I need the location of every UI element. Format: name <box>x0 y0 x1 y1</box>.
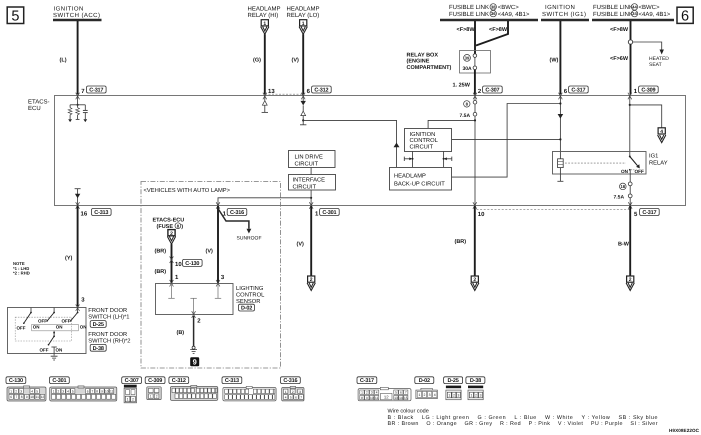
boundary crossing pin16 <box>76 202 80 209</box>
svg-text:OFF: OFF <box>38 319 47 324</box>
svg-text:SWITCH (ACC): SWITCH (ACC) <box>53 12 100 19</box>
svg-text:C-317: C-317 <box>89 88 103 94</box>
svg-text:<F>8W: <F>8W <box>610 27 629 33</box>
svg-text:7: 7 <box>92 389 94 393</box>
svg-text:(W): (W) <box>550 58 559 64</box>
svg-text:(B): (B) <box>177 330 185 336</box>
svg-text:7: 7 <box>16 395 18 399</box>
svg-text:4: 4 <box>434 393 436 397</box>
svg-text:SUNROOF: SUNROOF <box>237 235 262 241</box>
boundary crossing pin13 <box>263 93 267 100</box>
svg-text:(L): (L) <box>60 58 67 64</box>
boundary crossing pin6 C-312 <box>301 93 305 100</box>
headlamp relay (HI) label <box>248 6 281 20</box>
svg-text:ON: ON <box>621 169 629 174</box>
svg-text:2: 2 <box>132 397 134 401</box>
IG1 wire internal <box>558 96 564 159</box>
svg-text:SEAT: SEAT <box>649 62 662 68</box>
ignition control to backup terminals <box>404 151 413 167</box>
relay switch <box>621 156 644 174</box>
fusible link right bus bar <box>592 19 674 21</box>
svg-text:5: 5 <box>72 389 74 393</box>
lighting control sensor box <box>156 284 234 315</box>
svg-text:FUSIBLE LINK: FUSIBLE LINK <box>593 11 633 18</box>
door switch 3 <box>62 308 87 330</box>
ETACS-ECU fuse 8 source label <box>153 217 185 230</box>
svg-text:3: 3 <box>62 389 64 393</box>
door switch linkage dashed box <box>15 317 71 341</box>
svg-text:2: 2 <box>170 231 173 237</box>
svg-text:<F>8W: <F>8W <box>489 27 508 33</box>
ETACS-ECU box <box>55 96 686 206</box>
svg-text:OFF: OFF <box>635 169 645 174</box>
svg-text:ETACS-: ETACS- <box>28 99 50 106</box>
svg-text:RELAY BOX: RELAY BOX <box>407 53 439 59</box>
svg-text:C-316: C-316 <box>283 378 297 384</box>
svg-text:HEADLAMP: HEADLAMP <box>287 6 320 13</box>
svg-text:1: 1 <box>418 393 420 397</box>
svg-text:2: 2 <box>58 389 60 393</box>
svg-text:<4A9, 4B1>: <4A9, 4B1> <box>639 11 671 18</box>
svg-text:15: 15 <box>404 396 408 400</box>
svg-text:1: 1 <box>470 394 472 398</box>
C-309 wire internal with branch to off-page 4 <box>629 96 662 157</box>
svg-text:IGNITION: IGNITION <box>410 131 436 138</box>
svg-text:C-313: C-313 <box>94 210 108 216</box>
svg-text:5: 5 <box>395 391 397 395</box>
IG1 relay box <box>553 152 647 175</box>
svg-text:(BR): (BR) <box>455 239 467 245</box>
svg-text:1: 1 <box>302 21 305 27</box>
door switch ground <box>51 353 58 360</box>
boundary crossing C-316 <box>216 202 220 209</box>
wire (V) C-316 to sensor pin 3 <box>217 206 219 283</box>
svg-text:1: 1 <box>263 21 266 27</box>
svg-text:1: 1 <box>285 390 287 394</box>
svg-text:34: 34 <box>632 11 637 16</box>
link between LIN and interface <box>310 168 312 175</box>
interface circuit box <box>289 175 336 191</box>
svg-text:CIRCUIT: CIRCUIT <box>293 184 317 191</box>
svg-text:2: 2 <box>15 389 17 393</box>
svg-text:<4A9, 4B1>: <4A9, 4B1> <box>498 11 530 18</box>
placeholder groups <box>7 4 693 95</box>
svg-text:ON: ON <box>33 325 40 330</box>
svg-text:3: 3 <box>20 389 22 393</box>
svg-text:30A: 30A <box>463 66 473 72</box>
svg-text:(V): (V) <box>297 241 305 247</box>
pin16 internal output symbol <box>75 189 81 206</box>
svg-text:36: 36 <box>491 11 496 16</box>
fuse 8 7.5A on pin2 wire <box>460 96 477 119</box>
connector D-38 <box>466 377 485 400</box>
svg-text:1: 1 <box>361 391 363 395</box>
svg-text:3: 3 <box>429 393 431 397</box>
svg-text:4: 4 <box>376 391 378 395</box>
svg-text:1. 25W: 1. 25W <box>453 83 471 89</box>
relay coil <box>557 159 563 182</box>
sunroof branch <box>219 210 262 242</box>
wire (BR) to sensor pin 1 <box>171 244 173 283</box>
boundary crossing pin2 C-307 <box>473 93 477 100</box>
svg-text:H9X08E22OC: H9X08E22OC <box>669 428 700 433</box>
branch to heated seat <box>633 42 670 68</box>
svg-text:2: 2 <box>424 393 426 397</box>
svg-text:10: 10 <box>175 261 182 268</box>
note text <box>13 261 30 275</box>
svg-text:(G): (G) <box>253 58 261 64</box>
svg-text:C-317: C-317 <box>571 88 585 94</box>
svg-text:D-25: D-25 <box>93 322 104 328</box>
svg-text:ON: ON <box>80 325 87 330</box>
svg-text:<BWC>: <BWC> <box>498 4 520 11</box>
svg-text:(ENGINE: (ENGINE <box>407 59 430 65</box>
svg-text:C-301: C-301 <box>322 210 336 216</box>
svg-text:C-130: C-130 <box>9 378 23 384</box>
svg-text:1: 1 <box>448 394 450 398</box>
svg-text:6: 6 <box>400 391 402 395</box>
svg-text:5: 5 <box>36 389 38 393</box>
relay box outline <box>460 51 491 74</box>
svg-text:ETACS-ECU: ETACS-ECU <box>153 217 185 223</box>
svg-text:IGNITION: IGNITION <box>54 6 84 13</box>
svg-text:ON: ON <box>56 325 63 330</box>
svg-text:<F>8W: <F>8W <box>457 27 476 33</box>
backup box right connection <box>452 104 561 178</box>
door switch 2 <box>38 308 63 330</box>
svg-text:8: 8 <box>21 395 23 399</box>
fusible link 44/34 labels <box>593 4 671 18</box>
svg-text:6: 6 <box>10 395 12 399</box>
svg-text:BR : Brown O : Orange GR: BR : Brown O : Orange GR : Grey R : Red … <box>388 421 658 427</box>
svg-text:(Y): (Y) <box>65 256 73 262</box>
svg-text:7: 7 <box>300 395 302 399</box>
off-page connector 2 (pin5 wire) <box>626 276 634 291</box>
pin6 LO internal input symbol <box>300 96 306 125</box>
svg-text:12: 12 <box>41 395 45 399</box>
front door switch box <box>8 308 87 354</box>
svg-text:C-307: C-307 <box>125 378 139 384</box>
svg-text:C-312: C-312 <box>314 88 328 94</box>
svg-text:11: 11 <box>375 396 379 400</box>
svg-text:OFF: OFF <box>40 348 49 353</box>
svg-text:ECU: ECU <box>28 105 41 112</box>
off-page connector 1 (headlamp relay LO) <box>299 20 307 35</box>
svg-text:LIN DRIVE: LIN DRIVE <box>295 155 323 161</box>
svg-text:4: 4 <box>31 389 33 393</box>
page ref box 5 <box>7 7 24 24</box>
svg-text:B-W: B-W <box>618 241 630 247</box>
svg-text:CONTROL: CONTROL <box>236 292 265 299</box>
svg-text:11: 11 <box>36 395 40 399</box>
svg-text:C-312: C-312 <box>172 378 186 384</box>
svg-text:C-317: C-317 <box>642 210 656 216</box>
svg-text:CIRCUIT: CIRCUIT <box>295 161 319 168</box>
wire <F>6W to pin 1 <box>630 44 632 94</box>
svg-text:FUSIBLE LINK: FUSIBLE LINK <box>593 4 633 11</box>
svg-text:10: 10 <box>370 396 374 400</box>
svg-text:14: 14 <box>399 396 403 400</box>
wire colour code block <box>388 409 658 427</box>
svg-text:3: 3 <box>480 394 482 398</box>
sensor pin 2 ground wire (B) <box>192 311 196 318</box>
off-page connector 4 <box>658 128 666 143</box>
svg-text:C-317: C-317 <box>360 378 374 384</box>
wire (V) C-301 to off-page 2 <box>310 206 312 276</box>
front door switch labels <box>88 307 130 352</box>
svg-text:4: 4 <box>67 389 69 393</box>
wire (L) from ACC to pin 7 <box>77 21 79 95</box>
off-page connector 2 (pin10 wire) <box>471 276 479 291</box>
boundary crossing pin5 <box>628 202 632 209</box>
svg-text:FUSIBLE LINK: FUSIBLE LINK <box>449 4 489 11</box>
boundary crossing C-301 <box>309 202 313 209</box>
ignition switch (IG1) bus bar <box>541 19 589 21</box>
svg-text:FUSIBLE LINK: FUSIBLE LINK <box>449 11 489 18</box>
svg-text:2: 2 <box>629 277 632 283</box>
svg-text:IG1: IG1 <box>649 153 658 160</box>
connector C-130 <box>6 377 46 401</box>
svg-text:Wire colour code: Wire colour code <box>388 409 429 415</box>
ETACS-ECU label <box>28 99 50 113</box>
svg-text:(BR): (BR) <box>155 269 167 275</box>
svg-text:10: 10 <box>30 395 34 399</box>
svg-text:C-130: C-130 <box>185 261 199 267</box>
svg-text:7.5A: 7.5A <box>460 113 471 119</box>
ground ref 9 black box <box>190 357 199 366</box>
svg-text:1: 1 <box>127 397 129 401</box>
svg-text:SWITCH (IG1): SWITCH (IG1) <box>542 11 586 18</box>
svg-text:RELAY (HI): RELAY (HI) <box>248 12 279 19</box>
fuse 18 7.5A below relay <box>614 170 633 206</box>
svg-text:HEADLAMP: HEADLAMP <box>248 6 281 13</box>
svg-text:ON: ON <box>56 348 63 353</box>
wire (BR) pin10 to off-page 2 <box>474 206 476 276</box>
fuse 39 30A <box>463 54 477 72</box>
svg-text:<F>6W: <F>6W <box>610 56 629 62</box>
fusible link left bus bar <box>440 19 538 21</box>
svg-text:9: 9 <box>193 358 197 367</box>
svg-text:<BWC>: <BWC> <box>639 4 661 11</box>
wire B-W pin5 to off-page 2 <box>629 206 631 276</box>
wire fuse8 down to pin10 <box>474 116 476 206</box>
boundary crossing pin7 <box>76 93 80 100</box>
svg-text:BACK-UP CIRCUIT: BACK-UP CIRCUIT <box>394 180 445 187</box>
IG1 relay label <box>649 153 668 167</box>
svg-text:CONTROL: CONTROL <box>410 137 439 144</box>
off-page connector 2 (ETACS fuse) <box>167 230 175 245</box>
svg-text:2: 2 <box>473 277 476 283</box>
door switch 1 <box>17 308 40 331</box>
svg-text:IGNITION: IGNITION <box>545 4 575 11</box>
svg-text:OFF: OFF <box>17 325 26 330</box>
svg-text:2: 2 <box>310 277 313 283</box>
wire 1.25W to pin 2 <box>474 70 476 95</box>
svg-text:OFF: OFF <box>62 319 71 324</box>
svg-text:SWITCH (RH)*2: SWITCH (RH)*2 <box>88 338 130 345</box>
svg-text:7.5A: 7.5A <box>614 195 625 201</box>
svg-text:C-313: C-313 <box>225 378 239 384</box>
svg-text:RELAY (LO): RELAY (LO) <box>287 12 320 19</box>
svg-text:D-38: D-38 <box>470 378 481 384</box>
svg-text:INTERFACE: INTERFACE <box>293 177 326 184</box>
svg-text:FRONT DOOR: FRONT DOOR <box>88 307 127 314</box>
ignition switch (IG1) label <box>542 4 586 18</box>
ON bus rectangle <box>32 324 79 330</box>
line ignition control to IG1 coil wire <box>452 138 560 140</box>
sensor internal terminals <box>168 283 221 314</box>
svg-text:D-02: D-02 <box>419 378 430 384</box>
svg-text:D-38: D-38 <box>93 346 104 352</box>
signal arrow up <box>394 143 400 148</box>
svg-text:3: 3 <box>371 391 373 395</box>
svg-text:1: 1 <box>150 395 152 399</box>
ignition switch (ACC) label <box>53 6 100 20</box>
svg-text:7: 7 <box>405 391 407 395</box>
svg-text:3: 3 <box>299 390 301 394</box>
relay box (engine compartment) label <box>407 53 452 71</box>
svg-text:1: 1 <box>10 389 12 393</box>
vehicles with auto lamp dashed box <box>141 182 281 369</box>
svg-text:2: 2 <box>475 394 477 398</box>
svg-text:C-301: C-301 <box>52 378 66 384</box>
svg-text:2: 2 <box>453 394 455 398</box>
svg-text:C-307: C-307 <box>485 88 499 94</box>
svg-text:RELAY: RELAY <box>649 161 668 167</box>
svg-text:<VEHICLES WITH AUTO LAMP>: <VEHICLES WITH AUTO LAMP> <box>144 187 231 194</box>
svg-text:5: 5 <box>290 395 292 399</box>
svg-text:C-316: C-316 <box>230 210 244 216</box>
svg-text:FRONT DOOR: FRONT DOOR <box>88 331 127 338</box>
wire (Y) pin16 to door switch <box>77 206 79 307</box>
interface output wires <box>218 190 312 206</box>
svg-text:3: 3 <box>458 394 460 398</box>
svg-text:): ) <box>181 224 183 230</box>
connector D-02 <box>415 377 438 399</box>
svg-text:6: 6 <box>295 395 297 399</box>
svg-text:9: 9 <box>366 396 368 400</box>
ignition switch (ACC) bus bar <box>53 19 102 21</box>
svg-text:2: 2 <box>156 395 158 399</box>
svg-text:(V): (V) <box>206 248 214 254</box>
fusible link 38/36 labels <box>449 4 530 18</box>
boundary crossing pin10 <box>473 202 477 209</box>
page ref box 6 <box>677 7 693 24</box>
connector C-316 <box>281 377 305 401</box>
svg-text:5: 5 <box>11 8 19 24</box>
svg-text:8: 8 <box>361 396 363 400</box>
svg-text:9: 9 <box>101 389 103 393</box>
junction circle <box>628 40 632 44</box>
svg-text:C-309: C-309 <box>641 88 655 94</box>
svg-text:13: 13 <box>394 396 398 400</box>
svg-text:6: 6 <box>681 8 689 24</box>
svg-text:16: 16 <box>81 211 88 218</box>
headlamp relay (LO) label <box>287 6 320 20</box>
pin7 internal RC network <box>68 96 88 122</box>
svg-text:(V): (V) <box>292 58 300 64</box>
ignition control circuit box <box>405 129 452 152</box>
wire <F>8W down <box>630 21 632 40</box>
svg-text:SWITCH (LH)*1: SWITCH (LH)*1 <box>88 314 129 321</box>
off-page connector 1 (headlamp relay HI) <box>261 20 269 35</box>
off-page connector 2 (C-301 wire) <box>307 276 315 291</box>
svg-text:D-25: D-25 <box>448 378 459 384</box>
connector C-313 <box>222 377 276 401</box>
svg-text:4: 4 <box>660 129 663 135</box>
boundary crossing pin6 C-317 <box>559 93 563 100</box>
svg-text:1: 1 <box>53 389 55 393</box>
svg-text:LIGHTING: LIGHTING <box>236 285 264 292</box>
svg-text:D-02: D-02 <box>241 306 252 312</box>
svg-text:10: 10 <box>105 389 109 393</box>
svg-text:COMPARTMENT): COMPARTMENT) <box>407 65 452 71</box>
svg-text:39: 39 <box>465 56 470 61</box>
svg-text:9: 9 <box>26 395 28 399</box>
svg-text:(BR): (BR) <box>155 248 167 254</box>
fusible link wires <F>8W <box>474 21 476 54</box>
stub from ignition control box top <box>428 120 475 128</box>
pin13 internal input symbol <box>262 96 268 112</box>
connector C-309 <box>145 377 165 400</box>
svg-text:C-309: C-309 <box>148 378 162 384</box>
lower door switch <box>40 331 63 353</box>
svg-text:10: 10 <box>478 211 485 218</box>
svg-text:38: 38 <box>491 5 496 10</box>
LIN drive circuit box <box>289 151 336 168</box>
svg-text:*2 : RHD: *2 : RHD <box>13 270 30 275</box>
svg-text:4: 4 <box>285 395 287 399</box>
connector C-317 <box>357 377 411 401</box>
connector C-312 <box>169 377 218 401</box>
svg-text:18: 18 <box>620 184 625 189</box>
svg-text:2: 2 <box>292 390 294 394</box>
svg-text:44: 44 <box>632 5 637 10</box>
dashed option line between HI and LO wires <box>265 93 303 95</box>
connector C-307 <box>122 377 142 403</box>
svg-text:2: 2 <box>366 391 368 395</box>
connector C-301 <box>50 377 117 401</box>
wire LO junction to headlamp backup <box>303 120 396 167</box>
svg-text:CIRCUIT: CIRCUIT <box>410 143 434 150</box>
coil-switch dashed link <box>565 162 626 164</box>
svg-text:11: 11 <box>110 389 114 393</box>
wire (G) relay HI to pin 13 <box>264 34 266 94</box>
headlamp back-up circuit box <box>390 168 452 191</box>
svg-text:12: 12 <box>384 394 389 399</box>
wire (V) relay LO to pin 6 <box>302 34 304 94</box>
connector D-25 <box>444 377 463 400</box>
wire (W) IG1 to pin 6 <box>559 21 561 95</box>
svg-text:8: 8 <box>96 389 98 393</box>
boundary crossing pin1 C-309 <box>628 93 632 100</box>
svg-text:HEADLAMP: HEADLAMP <box>394 173 426 179</box>
svg-text:6: 6 <box>87 389 89 393</box>
lighting control sensor labels <box>236 285 265 312</box>
sensor ground <box>190 346 197 353</box>
